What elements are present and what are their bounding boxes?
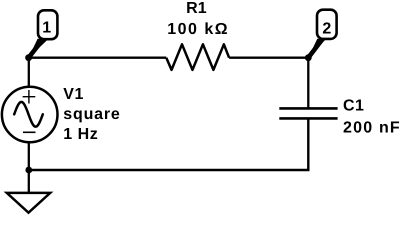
- capacitor C1 top plate: [279, 107, 337, 110]
- wire: capacitor bottom plate down and bottom horizontal to ground junction: [29, 118, 309, 170]
- wire top-left: node1 dot to resistor left lead: [29, 57, 167, 59]
- node 2 flag pointer: [308, 39, 326, 58]
- svg-text:100 kΩ: 100 kΩ: [167, 21, 229, 38]
- node 1 flag box: [38, 10, 57, 39]
- wire: voltage source bottom to ground junction: [28, 142, 30, 170]
- svg-text:square: square: [63, 106, 120, 123]
- voltage source minus sign: [23, 131, 36, 133]
- node 1 flag pointer: [29, 39, 49, 58]
- svg-text:200 nF: 200 nF: [343, 120, 400, 137]
- svg-text:1: 1: [42, 20, 51, 37]
- junction dot node 1: [25, 54, 32, 61]
- wire: node1 dot down to voltage source top: [28, 58, 30, 87]
- wire: resistor right lead to node2 dot: [229, 57, 308, 59]
- wire: node2 dot down to capacitor top plate: [307, 58, 309, 109]
- svg-text:C1: C1: [343, 98, 364, 115]
- svg-text:1 Hz: 1 Hz: [63, 126, 98, 143]
- junction dot node 2: [305, 54, 312, 61]
- resistor R1 zigzag: [166, 44, 229, 70]
- ground stub wire: [28, 170, 30, 193]
- capacitor C1 bottom plate: [279, 117, 337, 120]
- voltage source V1 sine wave: [14, 102, 43, 127]
- node 2 flag box: [317, 10, 337, 39]
- svg-text:R1: R1: [186, 0, 207, 17]
- svg-text:2: 2: [322, 21, 331, 38]
- voltage source V1 circle: [2, 87, 58, 143]
- ground triangle: [7, 193, 50, 213]
- svg-text:V1: V1: [63, 86, 84, 103]
- voltage source plus sign: [23, 90, 36, 104]
- junction dot ground: [25, 167, 32, 174]
